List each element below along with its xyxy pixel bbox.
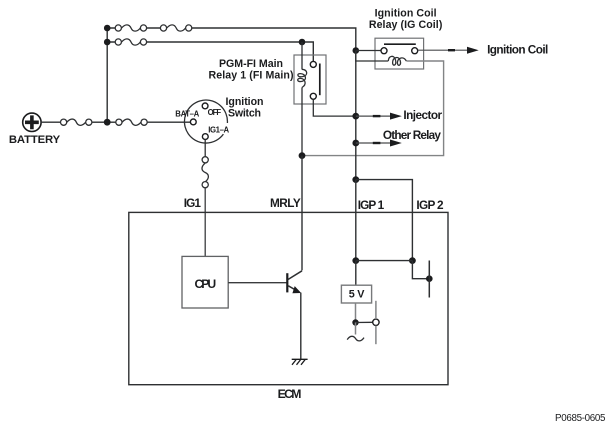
wire: CPU to transistor base xyxy=(228,282,287,284)
ECM box xyxy=(129,212,448,384)
contact BAT-A xyxy=(190,119,196,125)
wire: K1 bottom contact down, right to injector node xyxy=(313,99,352,116)
junction on line 2 xyxy=(104,39,111,46)
transistor Q1 emitter with arrow xyxy=(288,286,297,291)
svg-text:Other Relay: Other Relay xyxy=(383,128,441,142)
svg-text:MRLY: MRLY xyxy=(270,196,301,210)
junction on line 2 (coil branch) xyxy=(299,39,306,46)
wire: vertical through connector (gray) xyxy=(375,301,377,319)
junction IGP2 internal node xyxy=(409,257,416,264)
wire: MRLY vertical down to transistor collector xyxy=(301,156,303,271)
svg-text:IG1: IG1 xyxy=(184,196,202,210)
junction on stub xyxy=(426,275,433,282)
wire: vertical bus x=355.8 from K2 junction down to IGP branch xyxy=(355,51,357,180)
wire: IGP2 node down and right to stub xyxy=(412,261,429,279)
relay K2: Ignition Coil Relay box xyxy=(375,38,424,69)
wire: IGP1 node to IGP2 node xyxy=(356,260,413,262)
svg-text:Ignition: Ignition xyxy=(226,96,264,108)
wire: junction to K2 left contact xyxy=(356,50,381,52)
svg-text:IGP 1: IGP 1 xyxy=(358,198,385,212)
wire: top feed line 1 (y=28) from junction to turn-down at x=355.8 xyxy=(107,28,356,51)
wire: IGP1 down into ECM xyxy=(355,180,357,261)
fuse F1 on line 1 xyxy=(115,25,146,31)
wire: left vertical bus x=107.2 from line1 to battery line xyxy=(106,28,108,122)
contact (bottom) of K1 xyxy=(310,93,316,99)
CPU box xyxy=(182,256,228,308)
svg-text:Switch: Switch xyxy=(228,107,261,119)
junction feeding K2 xyxy=(353,47,360,54)
ground symbol xyxy=(292,359,308,365)
wire+dash+arrow to Injector xyxy=(356,115,391,117)
wire: sensor node down to squiggle (gray) xyxy=(355,323,357,335)
wire: sensor node to connector circle xyxy=(356,321,373,323)
wire: battery to fuse xyxy=(41,121,60,123)
wire: fuse to junction xyxy=(92,121,104,123)
squiggle (continuation mark) xyxy=(347,336,364,341)
fuse F3 on line 2 xyxy=(115,39,146,45)
wire: coil bottom down to MRLY node xyxy=(301,87,303,155)
wire: feed down and right into K2 coil xyxy=(356,51,389,62)
svg-text:Relay (IG Coil): Relay (IG Coil) xyxy=(369,19,443,31)
junction sensor node xyxy=(352,319,358,325)
fuse F2 on line 1 xyxy=(160,25,191,31)
contact (right) of K2 xyxy=(412,48,418,54)
svg-text:Injector: Injector xyxy=(403,108,442,122)
coil of relay K2 (horizontal, loops below) xyxy=(388,56,406,65)
fuse F4 (battery line left) xyxy=(61,119,92,125)
svg-text:ECM: ECM xyxy=(278,387,302,401)
transistor Q1 base bar xyxy=(286,273,288,292)
wire: junction down into relay coil xyxy=(301,42,303,70)
contact IG1-A xyxy=(202,134,208,140)
svg-text:Relay 1 (FI Main): Relay 1 (FI Main) xyxy=(209,70,294,82)
svg-text:P0685-0605: P0685-0605 xyxy=(555,413,606,424)
junction on battery line xyxy=(104,119,111,126)
wire: fuse down to CPU (IG1 net) xyxy=(204,188,206,257)
junction other-relay node xyxy=(352,140,359,147)
contact (top) of K1 xyxy=(310,61,316,67)
junction on line 1 xyxy=(104,25,111,32)
transistor Q1 collector xyxy=(288,271,302,280)
5V regulator box xyxy=(341,285,371,303)
svg-text:OFF: OFF xyxy=(208,108,222,117)
svg-text:PGM-FI Main: PGM-FI Main xyxy=(219,58,283,70)
junction MRLY node xyxy=(299,152,306,159)
wire: IGP1 node down to 5V regulator xyxy=(355,261,357,286)
fuse F6 (vertical, below ignition switch) xyxy=(202,157,208,188)
arrow to Ignition Coil xyxy=(467,47,479,54)
coil of relay K1 (vertical, loops left) xyxy=(298,69,307,87)
connector circle xyxy=(373,319,379,325)
svg-text:IGP 2: IGP 2 xyxy=(416,198,444,212)
wire: below 5V box down to sensor node (gray) xyxy=(355,303,357,322)
svg-text:BATTERY: BATTERY xyxy=(9,134,61,146)
contact bar of K1 xyxy=(319,64,321,96)
dash on ignition coil line xyxy=(448,49,455,51)
ignition switch S1 outer circle (gap on east side) xyxy=(184,100,227,143)
wire: branch right then down (IGP2 feed) xyxy=(356,180,413,261)
relay K1: PGM-FI Main Relay 1 box xyxy=(294,55,326,104)
wire: emitter down to ground xyxy=(300,293,302,360)
svg-text:IG1–A: IG1–A xyxy=(208,126,229,135)
svg-text:5 V: 5 V xyxy=(349,288,365,300)
contact OFF xyxy=(202,103,208,109)
wire: IG1-A down to fuse xyxy=(204,140,206,157)
stub bar (vertical wire segment) xyxy=(428,261,430,298)
contact bar of K2 xyxy=(384,43,416,45)
wire: top feed line 2 (y=42) from junction to PGM-FI relay top contact xyxy=(107,42,313,62)
wire: K2 coil out right, down, left to MRLY node (gray) xyxy=(305,61,444,156)
junction injector node xyxy=(352,113,359,120)
svg-text:BAT–A: BAT–A xyxy=(175,109,199,118)
contact (left) of K2 xyxy=(381,48,387,54)
wire: K2 right contact out to arrow xyxy=(418,49,468,51)
junction IGP1 internal node xyxy=(352,257,359,264)
svg-text:Ignition Coil: Ignition Coil xyxy=(487,43,548,57)
svg-text:Ignition Coil: Ignition Coil xyxy=(375,8,437,20)
wire: fuse to ignition switch BAT-A contact xyxy=(110,121,115,123)
battery BAT xyxy=(23,113,41,131)
svg-text:CPU: CPU xyxy=(194,277,216,291)
junction IGP branch node xyxy=(352,176,359,183)
fuse F5 (battery line right) xyxy=(116,119,147,125)
wire+dash+arrow to Other Relay xyxy=(356,142,391,144)
